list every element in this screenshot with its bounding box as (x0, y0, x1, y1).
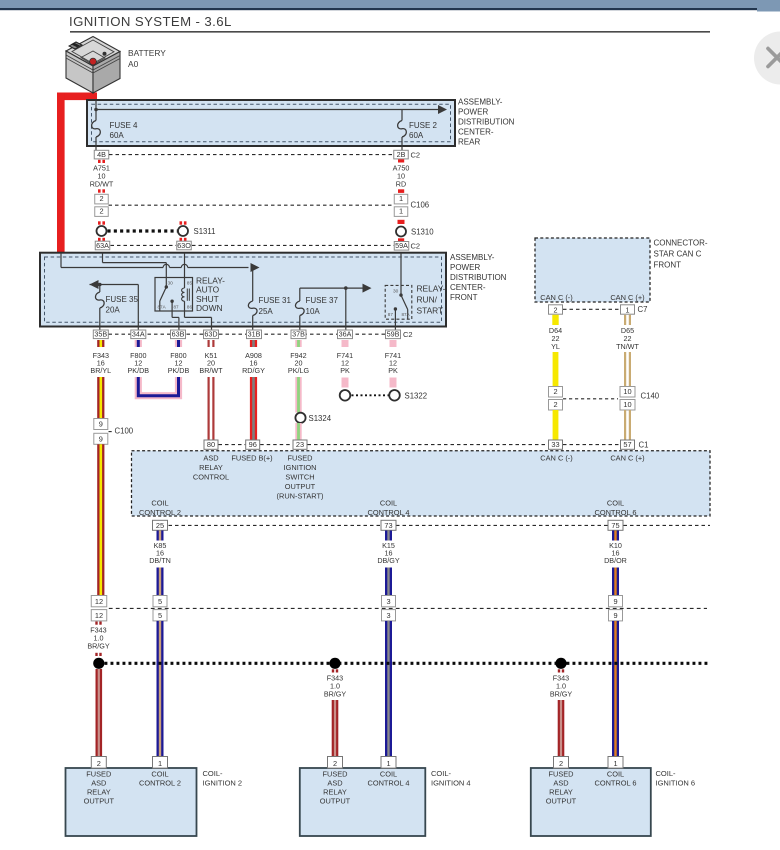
svg-text:RELAY: RELAY (549, 788, 573, 797)
svg-text:9: 9 (613, 611, 617, 620)
svg-text:COIL: COIL (151, 499, 168, 508)
svg-text:ASD: ASD (91, 779, 106, 788)
svg-text:SWITCH: SWITCH (285, 473, 314, 482)
svg-text:FUSED: FUSED (86, 770, 111, 779)
svg-text:2B: 2B (397, 150, 406, 159)
svg-text:CAN C (+): CAN C (+) (610, 293, 644, 302)
svg-text:BR/WT: BR/WT (199, 366, 223, 375)
svg-text:COIL-: COIL- (203, 769, 224, 778)
svg-text:2: 2 (99, 194, 103, 203)
svg-text:2: 2 (553, 387, 557, 396)
svg-text:FRONT: FRONT (450, 293, 478, 302)
svg-text:10: 10 (623, 387, 631, 396)
svg-text:9: 9 (99, 420, 103, 429)
svg-text:80: 80 (207, 440, 215, 449)
svg-text:35B: 35B (94, 330, 107, 339)
svg-text:2: 2 (333, 759, 337, 768)
svg-text:RD: RD (396, 180, 406, 189)
svg-text:59B: 59B (387, 330, 400, 339)
svg-text:1: 1 (386, 759, 390, 768)
svg-text:1: 1 (626, 305, 630, 314)
svg-text:59A: 59A (395, 241, 408, 250)
svg-text:10A: 10A (306, 307, 321, 316)
svg-text:ASD: ASD (553, 779, 568, 788)
svg-text:COIL-: COIL- (656, 769, 677, 778)
svg-text:S1322: S1322 (405, 391, 428, 400)
svg-text:31B: 31B (248, 330, 261, 339)
svg-text:CAN C (+): CAN C (+) (610, 454, 644, 463)
svg-text:CONTROL 4: CONTROL 4 (367, 779, 409, 788)
svg-text:RD/GY: RD/GY (242, 366, 265, 375)
svg-text:63B: 63B (172, 330, 185, 339)
svg-text:63A: 63A (96, 241, 109, 250)
svg-text:DISTRIBUTION: DISTRIBUTION (458, 118, 515, 127)
svg-text:DOWN: DOWN (196, 303, 223, 313)
svg-text:CONTROL 6: CONTROL 6 (594, 779, 636, 788)
svg-text:IGNITION 6: IGNITION 6 (656, 779, 696, 788)
svg-text:3: 3 (386, 611, 390, 620)
svg-text:63O: 63O (177, 241, 191, 250)
svg-text:5: 5 (158, 611, 162, 620)
svg-text:FUSE 4: FUSE 4 (110, 121, 139, 130)
svg-text:10: 10 (623, 400, 631, 409)
svg-text:OUTPUT: OUTPUT (285, 482, 316, 491)
svg-text:5: 5 (158, 597, 162, 606)
svg-text:PK: PK (388, 366, 398, 375)
svg-text:9: 9 (613, 597, 617, 606)
svg-text:85: 85 (187, 280, 193, 286)
svg-text:IGNITION 2: IGNITION 2 (203, 779, 243, 788)
svg-text:CONTROL 6: CONTROL 6 (594, 508, 636, 517)
svg-text:IGNITION 4: IGNITION 4 (431, 779, 471, 788)
svg-text:3: 3 (386, 597, 390, 606)
svg-text:ASD: ASD (203, 454, 218, 463)
svg-text:9: 9 (99, 435, 103, 444)
svg-text:34A: 34A (132, 330, 145, 339)
svg-text:POWER: POWER (450, 263, 480, 272)
svg-text:CAN C (-): CAN C (-) (540, 293, 572, 302)
svg-text:30: 30 (168, 280, 174, 286)
svg-text:BR/GY: BR/GY (550, 690, 573, 699)
svg-text:60A: 60A (110, 131, 125, 140)
svg-text:C140: C140 (641, 392, 660, 401)
svg-text:1: 1 (613, 759, 617, 768)
svg-text:OUTPUT: OUTPUT (546, 797, 577, 806)
svg-text:S1310: S1310 (411, 228, 434, 237)
svg-text:96: 96 (249, 440, 257, 449)
svg-text:25: 25 (156, 521, 164, 530)
svg-text:C2: C2 (403, 330, 413, 339)
svg-text:2: 2 (554, 305, 558, 314)
svg-text:A0: A0 (128, 59, 139, 69)
svg-text:30: 30 (393, 289, 399, 295)
svg-text:BATTERY: BATTERY (128, 48, 166, 58)
svg-text:COIL-: COIL- (431, 769, 452, 778)
svg-text:YL: YL (551, 342, 560, 351)
svg-text:RELAY-: RELAY- (417, 284, 446, 294)
svg-text:PK/DB: PK/DB (168, 366, 190, 375)
svg-text:12: 12 (95, 597, 103, 606)
svg-text:START: START (417, 306, 444, 316)
svg-text:PK/LG: PK/LG (288, 366, 310, 375)
svg-text:ASSEMBLY-: ASSEMBLY- (450, 253, 495, 262)
svg-text:BR/GY: BR/GY (324, 690, 347, 699)
svg-text:FUSED: FUSED (287, 454, 312, 463)
svg-text:PK/DB: PK/DB (128, 366, 150, 375)
svg-text:OUTPUT: OUTPUT (320, 797, 351, 806)
svg-text:RELAY: RELAY (87, 788, 111, 797)
svg-text:ASSEMBLY-: ASSEMBLY- (458, 98, 503, 107)
svg-text:CONNECTOR-: CONNECTOR- (654, 239, 708, 248)
svg-text:POWER: POWER (458, 108, 488, 117)
svg-text:1: 1 (158, 759, 162, 768)
svg-text:FUSE 31: FUSE 31 (259, 296, 292, 305)
svg-text:COIL: COIL (607, 499, 624, 508)
svg-text:C2: C2 (411, 242, 421, 251)
svg-text:DB/TN: DB/TN (149, 556, 171, 565)
svg-text:S1311: S1311 (194, 227, 216, 236)
svg-text:BR/YL: BR/YL (90, 366, 111, 375)
svg-text:1: 1 (399, 194, 403, 203)
svg-text:CONTROL 2: CONTROL 2 (139, 508, 181, 517)
svg-text:TN/WT: TN/WT (616, 342, 639, 351)
svg-text:63D: 63D (204, 330, 217, 339)
svg-text:BR/GY: BR/GY (87, 642, 110, 651)
svg-text:FUSED: FUSED (548, 770, 573, 779)
svg-text:12: 12 (95, 611, 103, 620)
svg-text:FRONT: FRONT (654, 261, 682, 270)
svg-text:57: 57 (623, 440, 631, 449)
svg-text:73: 73 (384, 521, 392, 530)
svg-text:(RUN-START): (RUN-START) (277, 492, 324, 501)
svg-text:23: 23 (296, 440, 304, 449)
svg-text:COIL: COIL (380, 770, 397, 779)
svg-text:2: 2 (97, 759, 101, 768)
svg-text:75: 75 (611, 521, 619, 530)
svg-text:FUSE 2: FUSE 2 (409, 121, 438, 130)
svg-text:PK: PK (340, 366, 350, 375)
svg-text:STAR CAN C: STAR CAN C (654, 250, 702, 259)
svg-text:C7: C7 (638, 305, 648, 314)
svg-text:IGNITION SYSTEM - 3.6L: IGNITION SYSTEM - 3.6L (69, 14, 232, 29)
svg-text:2: 2 (559, 759, 563, 768)
svg-text:CONTROL 2: CONTROL 2 (139, 779, 181, 788)
svg-text:37B: 37B (292, 330, 305, 339)
svg-text:IGNITION: IGNITION (284, 463, 317, 472)
svg-text:RD/WT: RD/WT (90, 180, 114, 189)
svg-text:60A: 60A (409, 131, 424, 140)
svg-text:87: 87 (388, 312, 394, 317)
svg-text:RUN/: RUN/ (417, 295, 438, 305)
svg-text:DISTRIBUTION: DISTRIBUTION (450, 273, 507, 282)
svg-text:C106: C106 (411, 201, 430, 210)
svg-text:86: 86 (187, 305, 193, 311)
svg-text:DB/GY: DB/GY (377, 556, 400, 565)
svg-text:20A: 20A (106, 306, 121, 315)
svg-text:87A: 87A (402, 312, 411, 317)
svg-text:DB/OR: DB/OR (604, 556, 627, 565)
svg-text:CAN C (-): CAN C (-) (540, 454, 572, 463)
svg-text:COIL: COIL (380, 499, 397, 508)
svg-text:COIL: COIL (607, 770, 624, 779)
svg-text:1: 1 (399, 207, 403, 216)
svg-text:CENTER-: CENTER- (458, 128, 494, 137)
svg-text:RELAY: RELAY (199, 463, 223, 472)
svg-text:2: 2 (553, 400, 557, 409)
svg-text:S1324: S1324 (309, 414, 332, 423)
svg-text:C2: C2 (411, 150, 421, 159)
svg-text:25A: 25A (259, 307, 274, 316)
svg-text:FUSED B(+): FUSED B(+) (231, 454, 272, 463)
svg-text:36A: 36A (339, 330, 352, 339)
svg-text:CENTER-: CENTER- (450, 283, 486, 292)
svg-text:C1: C1 (639, 441, 649, 450)
svg-text:COIL: COIL (151, 770, 168, 779)
svg-text:CONTROL: CONTROL (193, 473, 229, 482)
svg-text:33: 33 (551, 440, 559, 449)
svg-text:REAR: REAR (458, 138, 480, 147)
svg-text:2: 2 (99, 207, 103, 216)
svg-text:CONTROL 4: CONTROL 4 (367, 508, 409, 517)
svg-text:87: 87 (174, 305, 180, 310)
svg-text:C100: C100 (115, 427, 134, 436)
svg-text:FUSE 37: FUSE 37 (306, 296, 339, 305)
svg-text:OUTPUT: OUTPUT (84, 797, 115, 806)
svg-text:RELAY: RELAY (323, 788, 347, 797)
svg-text:FUSED: FUSED (322, 770, 347, 779)
svg-text:4B: 4B (97, 150, 106, 159)
svg-text:ASD: ASD (327, 779, 342, 788)
svg-text:87A: 87A (158, 305, 167, 310)
svg-text:FUSE 35: FUSE 35 (106, 295, 139, 304)
